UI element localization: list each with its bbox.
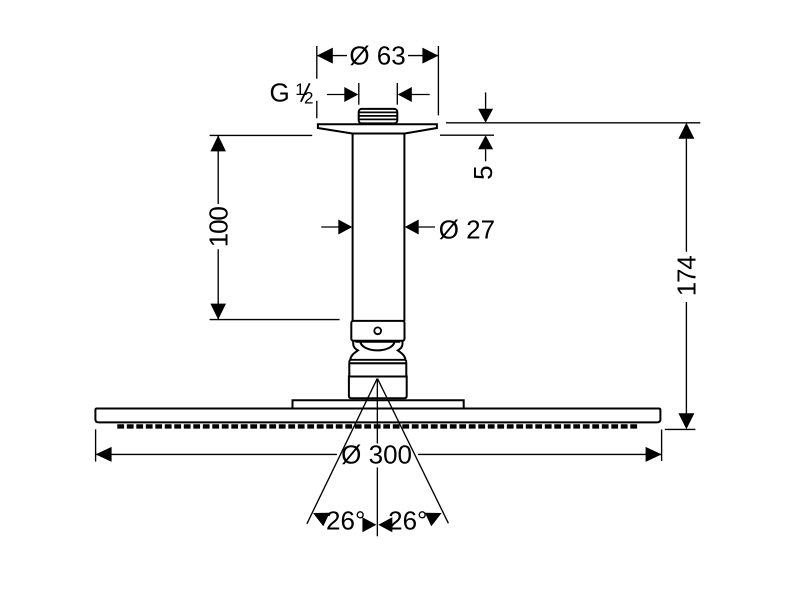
dim 100 line — [217, 135, 219, 319]
svg-text:26°: 26° — [326, 505, 365, 535]
ball lens — [360, 342, 394, 350]
dim 5 lower line — [440, 134, 494, 136]
arrow 174 up — [678, 123, 694, 139]
arrow Ø300 right — [646, 447, 662, 462]
dim Ø300 ext left — [95, 429, 97, 461]
ball joint outer left — [350, 341, 358, 360]
thread fitting G1/2 — [359, 109, 398, 124]
plate raised step — [293, 400, 464, 408]
dim 100 ref top — [210, 134, 313, 136]
dim Ø63 extension left — [316, 46, 318, 118]
dim G1/2 right line — [411, 94, 430, 96]
svg-text:Ø 63: Ø 63 — [349, 41, 405, 71]
nozzle band — [117, 424, 639, 428]
spray line right — [378, 379, 449, 524]
dim 174 line — [685, 139, 687, 415]
arrow G1/2 left — [344, 87, 358, 102]
joint base block — [349, 377, 407, 399]
arrow Ø27 left — [338, 220, 352, 235]
arrow Ø63 right — [422, 48, 438, 64]
arrow 100 down — [210, 304, 226, 320]
fraction slash — [301, 83, 310, 102]
dim Ø300 ext right — [661, 430, 663, 462]
arrow Ø27 right — [405, 220, 419, 235]
svg-text:G: G — [270, 77, 290, 107]
dim 5 lower arrow line — [485, 149, 487, 161]
ball joint outer right — [398, 341, 406, 360]
arrow 26 outer left — [313, 513, 330, 527]
arrow 26 inner right — [378, 517, 392, 532]
thread lines — [359, 112, 397, 119]
spray line left — [307, 379, 377, 524]
ball equator line — [355, 341, 400, 343]
dim 5 upper arrow line — [485, 92, 487, 109]
svg-text:174: 174 — [672, 256, 702, 297]
arrow 174 down — [678, 413, 694, 429]
svg-text:5: 5 — [468, 165, 498, 179]
ceiling flange — [318, 124, 437, 133]
dim G1/2 left line — [327, 94, 345, 96]
svg-text:Ø 27: Ø 27 — [439, 215, 495, 245]
svg-text:100: 100 — [204, 207, 234, 248]
arrow 26 outer right — [425, 513, 442, 527]
arrow 5 up — [478, 135, 493, 149]
collar — [351, 321, 404, 341]
joint body — [349, 363, 406, 376]
shower plate — [95, 409, 660, 423]
pipe — [353, 133, 405, 321]
spray center line — [376, 379, 378, 537]
dim 100 ref bottom — [210, 319, 340, 321]
svg-text:Ø 300: Ø 300 — [341, 439, 412, 469]
arrow 5 down — [478, 109, 493, 123]
dim Ø27 left line — [321, 226, 339, 228]
datum line bottom right — [665, 428, 696, 430]
collar hole — [374, 327, 381, 334]
dim Ø63 extension right — [437, 46, 439, 115]
datum line top right — [446, 122, 700, 124]
arrow G1/2 right — [398, 87, 412, 102]
dim Ø27 right line — [419, 226, 435, 228]
arrow 100 up — [210, 135, 226, 151]
dim G1/2 ext left — [358, 83, 360, 105]
arrow Ø63 left — [317, 48, 333, 64]
joint ring band — [349, 360, 406, 364]
dim Ø63 line — [317, 55, 439, 57]
dim Ø300 line — [96, 453, 662, 455]
svg-text:26°: 26° — [388, 505, 427, 535]
arrow Ø300 left — [96, 447, 112, 462]
arrow 26 inner left — [362, 517, 376, 532]
svg-text:2: 2 — [304, 89, 313, 108]
dim G1/2 ext right — [396, 83, 398, 105]
